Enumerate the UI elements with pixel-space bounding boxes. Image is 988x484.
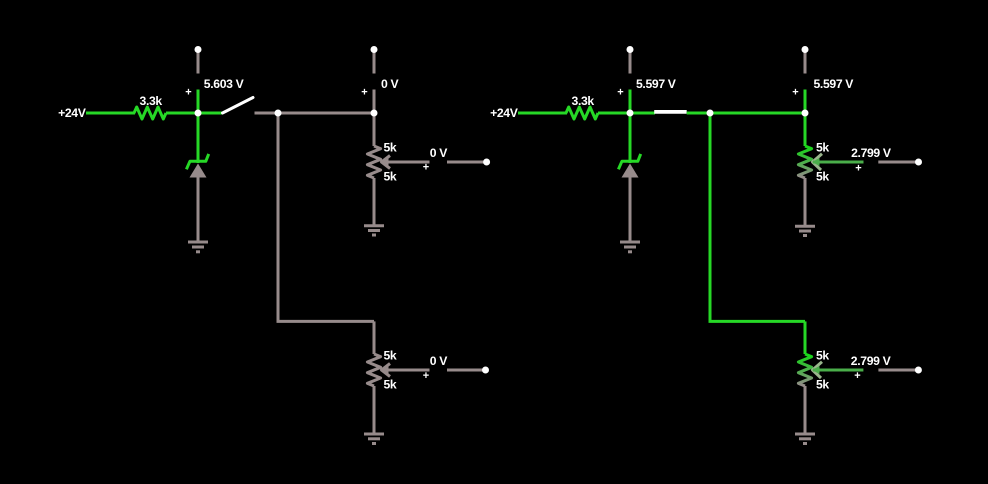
switch SW2 (closed) lever xyxy=(654,110,687,114)
node C junction dot (pot P1 top) xyxy=(371,110,378,117)
potentiometer P2 wiper lead xyxy=(382,369,430,372)
node D junction dot xyxy=(627,110,634,117)
wire: node F down to pot P3 xyxy=(804,113,807,146)
svg-text:5k: 5k xyxy=(384,141,397,155)
wire: down to pot P2 xyxy=(373,321,376,354)
wire: R1 to node A / switch SW1 xyxy=(166,112,223,115)
node A junction dot xyxy=(195,110,202,117)
potentiometer P3 wiper lead xyxy=(813,161,864,164)
potentiometer P2 body xyxy=(367,354,380,386)
zener diode D1 anode triangle xyxy=(190,164,207,178)
potentiometer P1 body xyxy=(367,146,380,178)
ground G5 xyxy=(795,226,815,235)
zener diode D2 cathode lead (green) xyxy=(629,113,632,163)
ground G4 xyxy=(620,242,640,252)
potentiometer P4 wiper arrow xyxy=(813,362,823,378)
svg-text:+: + xyxy=(792,87,798,99)
potentiometer P3 wiper arrowhead xyxy=(812,158,820,166)
svg-text:5k: 5k xyxy=(816,141,829,155)
svg-text:5k: 5k xyxy=(384,378,397,392)
potentiometer P2 wiper arrowhead xyxy=(381,366,389,374)
svg-text:5k: 5k xyxy=(384,349,397,363)
svg-text:5k: 5k xyxy=(384,170,397,184)
potentiometer P1 wiper arrow xyxy=(382,156,391,169)
svg-text:+: + xyxy=(855,163,861,175)
potentiometer P4 wiper lead xyxy=(813,369,863,372)
resistor R1 3.3k body xyxy=(134,107,166,119)
svg-text:0 V: 0 V xyxy=(430,354,448,368)
potentiometer P1 wiper lead xyxy=(382,161,430,164)
voltmeter O1 post dot xyxy=(483,159,490,166)
voltmeter V4 upper lead xyxy=(804,53,807,74)
voltmeter O2 outer lead xyxy=(447,369,486,372)
potentiometer P4 body (voltage gradient) xyxy=(798,354,811,386)
voltmeter O4 outer lead xyxy=(878,369,918,372)
voltmeter V3 lower (+) lead xyxy=(629,90,632,114)
zener diode D1 cathode bar xyxy=(186,154,208,169)
potentiometer P4 wiper arrowhead xyxy=(812,366,820,374)
wire: pot P2 bottom to ground G3 xyxy=(373,386,376,434)
svg-text:+: + xyxy=(854,370,860,382)
wire: across to pot P2 column xyxy=(277,320,375,323)
svg-text:2.799 V: 2.799 V xyxy=(851,146,892,160)
svg-text:2.799 V: 2.799 V xyxy=(851,354,892,368)
wire: node C down to pot P1 xyxy=(373,113,376,146)
svg-text:5.597 V: 5.597 V xyxy=(814,77,855,91)
voltmeter V2 post dot xyxy=(371,46,378,53)
voltmeter O2 post dot xyxy=(482,367,489,374)
zener diode D2 anode lead xyxy=(629,178,632,242)
zener diode D1 anode lead xyxy=(197,178,200,242)
voltmeter V4 lower (+) lead xyxy=(804,90,807,114)
potentiometer P2 wiper arrow xyxy=(382,364,391,377)
svg-text:+: + xyxy=(185,87,191,99)
potentiometer P3 body (voltage gradient) xyxy=(798,146,811,178)
voltmeter V4 post dot xyxy=(802,46,809,53)
voltmeter V1 lower (+) lead xyxy=(197,90,200,114)
voltmeter V2 upper lead xyxy=(373,53,376,74)
ground G1 xyxy=(188,242,208,252)
node F junction dot (pot P3 top) xyxy=(802,110,809,117)
zener diode D2 anode triangle xyxy=(622,164,639,178)
svg-text:5k: 5k xyxy=(816,378,829,392)
svg-text:5k: 5k xyxy=(816,349,829,363)
wire: SW2 to node E and node F xyxy=(687,112,805,115)
svg-text:5.597 V: 5.597 V xyxy=(636,77,677,91)
wire: SW1 to node B and to pot P1 top node xyxy=(255,112,375,115)
ground G3 xyxy=(364,434,384,444)
voltmeter O3 outer lead xyxy=(878,161,918,164)
svg-text:0 V: 0 V xyxy=(381,77,399,91)
svg-text:+: + xyxy=(617,87,623,99)
resistor R2 3.3k body xyxy=(566,107,598,119)
voltmeter O4 post dot xyxy=(915,367,922,374)
wire: R2 to node D and switch SW2 xyxy=(598,112,655,115)
wire: node B down xyxy=(277,113,280,321)
wire: pot P1 bottom to ground G2 xyxy=(373,178,376,225)
wire: down to pot P4 xyxy=(804,321,807,354)
svg-text:3.3k: 3.3k xyxy=(572,94,595,108)
svg-text:5k: 5k xyxy=(816,170,829,184)
potentiometer P3 wiper arrow xyxy=(813,154,823,170)
wire: +24V rail to resistor R2 xyxy=(518,112,567,115)
voltmeter V1 upper lead xyxy=(197,53,200,74)
svg-text:+: + xyxy=(423,162,429,174)
voltmeter O1 outer lead xyxy=(447,161,487,164)
node E junction dot xyxy=(707,110,714,117)
svg-text:+24V: +24V xyxy=(490,106,519,120)
svg-text:+: + xyxy=(361,87,367,99)
svg-text:+24V: +24V xyxy=(58,106,87,120)
zener diode D2 cathode bar xyxy=(618,154,640,169)
zener diode D1 cathode lead (green) xyxy=(197,113,200,163)
wire: pot P4 bottom to ground G6 xyxy=(804,386,807,434)
voltmeter V2 lower (+) lead xyxy=(373,90,376,114)
wire: +24V rail to resistor R1 xyxy=(86,112,135,115)
ground G6 xyxy=(795,434,815,444)
voltmeter V1 post dot xyxy=(195,46,202,53)
voltmeter O3 post dot xyxy=(915,159,922,166)
wire: node E down xyxy=(709,113,712,321)
potentiometer P1 wiper arrowhead xyxy=(381,158,389,166)
wire: across to pot P4 column xyxy=(709,320,806,323)
svg-text:+: + xyxy=(423,370,429,382)
wire: pot P3 bottom to ground G5 xyxy=(804,178,807,226)
voltmeter V3 post dot xyxy=(627,46,634,53)
voltmeter V3 upper lead xyxy=(629,53,632,74)
svg-text:5.603 V: 5.603 V xyxy=(204,77,245,91)
ground G2 xyxy=(364,226,384,235)
svg-text:3.3k: 3.3k xyxy=(140,94,163,108)
svg-text:0 V: 0 V xyxy=(430,146,448,160)
node B junction dot xyxy=(275,110,282,117)
switch SW1 (open) lever xyxy=(223,98,254,114)
